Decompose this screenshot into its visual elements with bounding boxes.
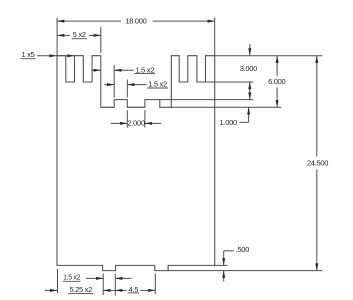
svg-text:6.000: 6.000 [268, 77, 285, 86]
slot bottom extension line (depth 3) [206, 81, 254, 83]
floor extension line (depth 6) [171, 106, 281, 108]
dimension 1.5 x2 upper [91, 65, 155, 74]
dimension 1.5 x2 lower extension line [126, 80, 128, 98]
dimension 1.5 x2 bottom [63, 275, 132, 282]
note 1 x5 [21, 50, 75, 59]
svg-text:5 x2: 5 x2 [73, 30, 86, 39]
dimension 1.000 [220, 107, 251, 127]
svg-text:18.000: 18.000 [125, 17, 146, 26]
dimension 1.5 x2 upper extension line [113, 65, 115, 98]
dimension 18.000 left extension line [56, 18, 58, 56]
bottom-left extension line [57, 269, 59, 293]
dimension 5 x2 [57, 30, 101, 39]
tab1 right extension line [114, 274, 116, 296]
dimension 4.5 [115, 285, 155, 294]
svg-text:2.000: 2.000 [127, 119, 144, 128]
ledge extension line (depth 5) [160, 99, 254, 101]
dimension .500 extension line [215, 264, 228, 266]
svg-text:1.5 x2: 1.5 x2 [63, 275, 80, 282]
dimension 1.5 x2 lower [104, 80, 168, 89]
dimension 6.000 [268, 56, 285, 108]
tab2 left extension line [154, 274, 156, 295]
svg-text:1.5 x2: 1.5 x2 [148, 80, 167, 89]
dimension 5 x2 right extension line [100, 27, 102, 53]
tab1 left extension line [102, 274, 104, 296]
svg-text:.500: .500 [236, 245, 250, 254]
svg-text:1.5 x2: 1.5 x2 [135, 65, 154, 74]
svg-text:1.000: 1.000 [220, 118, 237, 127]
dimension 24.500 bottom extension line [168, 270, 322, 272]
dimension 18.000 right extension line [214, 18, 216, 56]
dimension 2.000 right extension line [144, 110, 146, 127]
dimension 24.500 [307, 56, 328, 271]
dimension 2.000 left extension line [126, 110, 128, 127]
svg-text:1 x5: 1 x5 [22, 50, 35, 59]
dimension 5.25 x2 [45, 285, 115, 294]
top edge extension line [215, 55, 323, 57]
part outline [57, 56, 215, 271]
dimension 3.000 [240, 44, 257, 100]
svg-text:3.000: 3.000 [240, 64, 257, 73]
dimension 18.000 [57, 17, 215, 26]
svg-text:24.500: 24.500 [307, 159, 328, 168]
dimension .500 [222, 245, 249, 282]
dimension 2.000 [111, 119, 162, 128]
svg-text:5.25 x2: 5.25 x2 [69, 285, 92, 294]
